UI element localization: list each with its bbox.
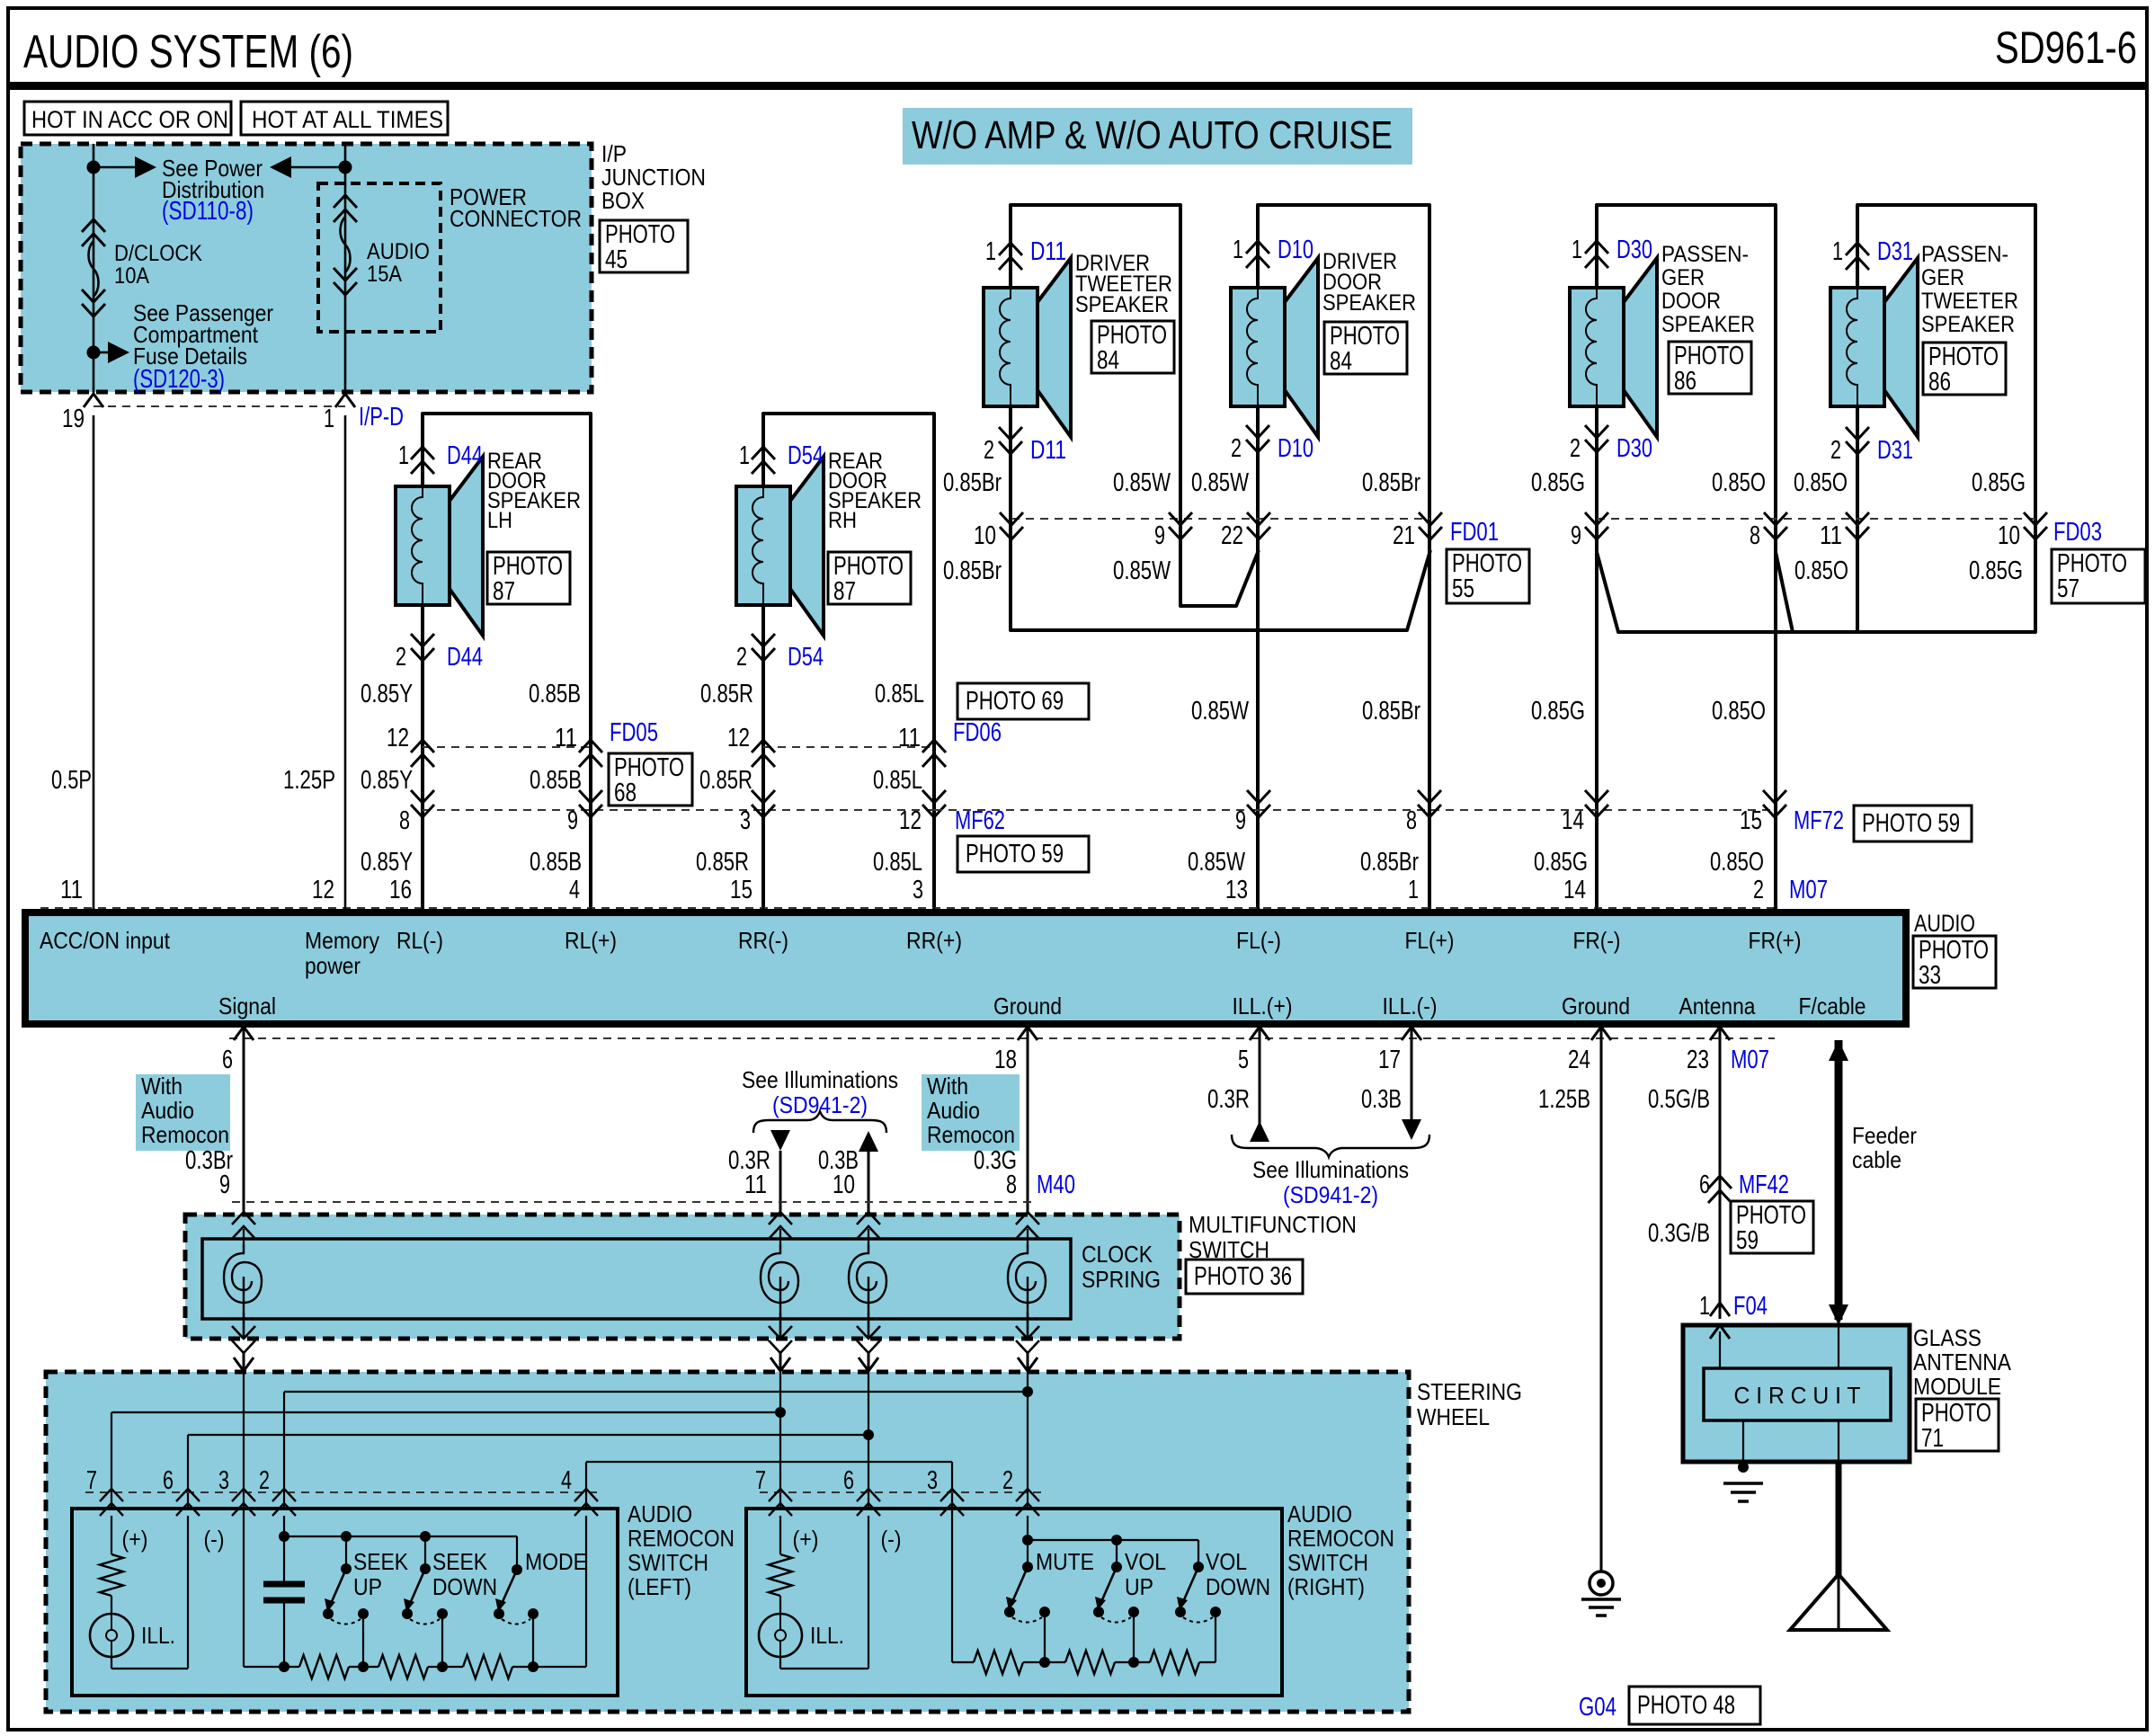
banner W/O AMP & W/O AUTO CRUISE [903, 108, 1412, 165]
connector right switch pin 7 [769, 1489, 792, 1516]
connector chevron below multifunction box x=1143 [1016, 1326, 1039, 1353]
svg-text:D44: D44 [447, 441, 483, 470]
svg-text:1: 1 [985, 237, 996, 266]
svg-text:0.5P: 0.5P [51, 766, 92, 795]
connector MF72 pin 9 [1247, 790, 1270, 817]
box With Audio Remocon (right) [922, 1074, 1020, 1151]
connector FD03 pin 8 [1764, 512, 1787, 539]
svg-text:1: 1 [739, 441, 750, 470]
connector M07 dashed line (bottom pins) [229, 1037, 1775, 1039]
connector D44 pin 2 [411, 634, 434, 661]
svg-text:0.85W: 0.85W [1188, 848, 1245, 877]
svg-text:1: 1 [1408, 876, 1419, 904]
connector right switch pin 3 [940, 1489, 964, 1516]
connector D10 pin 2 [1246, 425, 1269, 452]
connector left switch pin 2 [272, 1489, 296, 1516]
svg-text:10: 10 [974, 521, 996, 550]
svg-text:7: 7 [86, 1466, 97, 1495]
svg-text:2: 2 [1570, 434, 1581, 463]
svg-text:2: 2 [1830, 436, 1841, 465]
wire through clock spring x=271 [243, 1313, 245, 1339]
speaker PASSENGER TWEETER SPEAKER [1884, 258, 1918, 437]
svg-text:UP: UP [1125, 1573, 1153, 1600]
wire 0.3R into steering wheel to pin 7 right [779, 1372, 781, 1510]
svg-text:ILL.: ILL. [141, 1622, 175, 1649]
svg-text:55: 55 [1452, 574, 1474, 603]
node bus junction vol up [1128, 1657, 1139, 1668]
connector M40 chevron at x=868 [769, 1212, 792, 1239]
svg-text:0.85O: 0.85O [1794, 468, 1848, 497]
node capacitor junction [279, 1531, 289, 1542]
wire routing line A pin2L to ground [284, 1391, 1028, 1393]
audio remocon switch right box [746, 1509, 1282, 1696]
svg-text:D31: D31 [1877, 436, 1913, 465]
svg-text:CONNECTOR: CONNECTOR [450, 205, 582, 232]
node junction on AUDIO fuse wire [339, 161, 352, 174]
svg-text:D30: D30 [1616, 236, 1652, 264]
svg-text:7: 7 [755, 1466, 766, 1495]
svg-text:DOWN: DOWN [432, 1573, 497, 1600]
connector MF42 pin 6 [1708, 1176, 1732, 1203]
svg-text:D11: D11 [1030, 436, 1066, 465]
svg-text:Ground: Ground [1562, 993, 1630, 1019]
svg-text:D11: D11 [1030, 237, 1066, 266]
connector D10 pin 1 [1246, 241, 1269, 268]
svg-text:D54: D54 [788, 643, 824, 672]
node bus junction mute [1039, 1657, 1050, 1668]
svg-text:ANTENNA: ANTENNA [1913, 1349, 2012, 1375]
svg-text:(+): (+) [122, 1526, 148, 1553]
photo ref PHOTO 71 [1916, 1399, 1999, 1451]
node junction on D/CLOCK wire [87, 161, 101, 174]
svg-text:(LEFT): (LEFT) [628, 1573, 691, 1600]
svg-text:12: 12 [727, 724, 750, 752]
clock spring coil at x=868 [779, 1229, 781, 1250]
switch VOL DOWN [1193, 1562, 1204, 1572]
svg-text:BOX: BOX [601, 187, 645, 214]
svg-text:RR(+): RR(+) [906, 927, 962, 954]
connector FD06 pin 11 [922, 740, 946, 767]
svg-text:8: 8 [1750, 521, 1760, 550]
svg-text:9: 9 [1571, 521, 1581, 550]
svg-text:0.3R: 0.3R [1207, 1085, 1250, 1114]
connector FD01 pin 22 [1247, 512, 1270, 539]
svg-text:1: 1 [1572, 236, 1582, 264]
svg-text:17: 17 [1378, 1046, 1401, 1074]
svg-text:D10: D10 [1278, 434, 1313, 463]
photo ref PHOTO 59 (MF62) [957, 836, 1089, 872]
svg-text:MODULE: MODULE [1913, 1373, 2001, 1400]
connector FD06 dashed line [763, 746, 934, 748]
wire signal into steering wheel to pin 3 left [243, 1372, 245, 1510]
connector FD01 pin 9 [1169, 512, 1192, 539]
connector MF72 pin 15 [1763, 790, 1786, 817]
svg-text:6: 6 [1699, 1171, 1710, 1199]
svg-text:8: 8 [399, 806, 410, 835]
svg-text:15A: 15A [367, 262, 402, 287]
svg-text:1: 1 [1832, 237, 1843, 266]
connector M07 pin 11 caret [84, 909, 103, 922]
svg-text:4: 4 [561, 1466, 572, 1495]
svg-text:11: 11 [744, 1171, 767, 1199]
svg-text:RR(-): RR(-) [738, 927, 788, 954]
wire ACC/ON input (0.5P) [93, 415, 95, 909]
svg-text:0.85R: 0.85R [700, 680, 753, 708]
svg-text:(SD941-2): (SD941-2) [1283, 1181, 1378, 1208]
svg-text:9: 9 [1154, 521, 1165, 550]
connector M40 chevron at x=271 [232, 1212, 255, 1239]
switch SEEK DOWN [420, 1531, 431, 1542]
svg-text:VOL: VOL [1206, 1548, 1247, 1575]
wire passenger door speaker loop (FR) [1597, 205, 1776, 915]
wire switch feed line right [1028, 1539, 1198, 1541]
svg-text:I/P-D: I/P-D [359, 403, 404, 432]
svg-text:24: 24 [1568, 1046, 1590, 1074]
svg-text:FD06: FD06 [953, 718, 1002, 747]
svg-text:FD03: FD03 [2053, 518, 2102, 547]
fuse AUDIO 15A [334, 195, 357, 222]
svg-text:Signal: Signal [218, 993, 276, 1019]
svg-text:MF42: MF42 [1739, 1171, 1789, 1199]
svg-text:0.85Y: 0.85Y [361, 680, 413, 708]
svg-text:REMOCON: REMOCON [1287, 1525, 1394, 1552]
svg-text:9: 9 [567, 806, 578, 835]
wire Signal (0.3Br) [243, 1024, 245, 1215]
connector FD05 pin 11 [579, 740, 602, 767]
svg-text:15: 15 [1740, 806, 1762, 835]
wire through clock spring x=868 [779, 1313, 782, 1339]
connector M40 chevron at x=1143 [1016, 1212, 1039, 1239]
antenna feed thick [1836, 1462, 1842, 1576]
wire circuit internal ground [1742, 1420, 1744, 1467]
switch MUTE [1027, 1540, 1029, 1567]
svg-text:57: 57 [2057, 574, 2079, 603]
wire 0.3B into steering wheel to pin 6 right [868, 1372, 869, 1510]
svg-text:0.5G/B: 0.5G/B [1648, 1085, 1710, 1114]
svg-text:(SD120-3): (SD120-3) [133, 365, 225, 394]
wire ILL.(-) 0.3B to illuminations [1411, 1024, 1413, 1119]
AUDIO unit box [25, 913, 1906, 1024]
svg-text:PHOTO 36: PHOTO 36 [1194, 1262, 1292, 1291]
svg-text:SEEK: SEEK [353, 1548, 409, 1575]
svg-text:MULTIFUNCTION: MULTIFUNCTION [1189, 1211, 1357, 1238]
connector D44 pin 1 [411, 447, 434, 474]
svg-text:AUDIO: AUDIO [628, 1500, 692, 1527]
wire routing line C pin6L to 0.3B [188, 1434, 868, 1436]
photo ref PHOTO 36 [1186, 1260, 1303, 1294]
connector MF72 pin 8 [1418, 790, 1441, 817]
connector M40 chevron at x=966 [857, 1212, 880, 1239]
connector right switch pin 6 [857, 1489, 880, 1516]
switch VOL UP [1111, 1535, 1122, 1545]
wire 0.3B illumination return with up arrow [859, 1131, 878, 1152]
svg-text:0.85W: 0.85W [1113, 468, 1171, 497]
node junction lower on D/CLOCK wire [87, 346, 101, 360]
box HOT IN ACC OR ON [24, 102, 231, 135]
connector D30 pin 1 [1585, 241, 1608, 268]
svg-text:10: 10 [1998, 521, 2020, 550]
svg-text:PHOTO 69: PHOTO 69 [966, 687, 1064, 716]
wire Memory power (1.25P) [344, 415, 347, 909]
connector D30 pin 2 [1585, 425, 1608, 452]
wire driver door speaker loop (FL) [1258, 205, 1429, 915]
connector D31 pin 2 [1846, 427, 1869, 454]
svg-text:2: 2 [1231, 434, 1242, 463]
svg-text:D31: D31 [1877, 237, 1913, 266]
connector D54 pin 1 [752, 447, 775, 474]
svg-text:45: 45 [605, 245, 628, 274]
photo ref PHOTO 86 (door) [1669, 342, 1751, 394]
svg-text:With: With [141, 1073, 183, 1099]
svg-text:LH: LH [487, 508, 512, 533]
svg-text:21: 21 [1393, 521, 1415, 550]
photo ref PHOTO 87 (LH) [487, 552, 570, 604]
svg-text:18: 18 [994, 1046, 1017, 1074]
connector dashed line right switch pins [760, 1491, 1043, 1493]
svg-text:87: 87 [493, 577, 515, 606]
brace left illuminations [753, 1111, 886, 1133]
svg-text:M07: M07 [1731, 1046, 1769, 1074]
connector M07 pin 13 caret [1249, 909, 1269, 922]
svg-text:0.85G: 0.85G [1972, 468, 2026, 497]
svg-text:0.85Y: 0.85Y [361, 766, 413, 795]
svg-text:RL(+): RL(+) [565, 927, 617, 954]
svg-text:D54: D54 [788, 441, 824, 470]
svg-text:FL(-): FL(-) [1236, 927, 1281, 954]
connector M07 pin 15 caret [753, 909, 773, 922]
photo ref PHOTO 69 [957, 683, 1089, 719]
clock spring inner box [202, 1239, 1071, 1319]
svg-text:Memory: Memory [305, 927, 379, 954]
svg-text:2: 2 [259, 1466, 270, 1495]
connector left switch pin 3 [232, 1489, 255, 1516]
svg-text:PASSEN-: PASSEN- [1921, 242, 2008, 267]
svg-text:GLASS: GLASS [1913, 1324, 1981, 1351]
svg-text:RH: RH [828, 508, 857, 533]
wire 0.3G into steering wheel to pin 2 right [1027, 1372, 1029, 1510]
resistor lamp right [779, 1516, 781, 1554]
svg-text:WHEEL: WHEEL [1417, 1403, 1490, 1430]
connector MF62 pin 3 [752, 790, 775, 817]
svg-text:0.85G: 0.85G [1534, 848, 1588, 877]
svg-text:Audio: Audio [927, 1097, 980, 1124]
connector left switch pin 6 [176, 1489, 200, 1516]
svg-text:AUDIO SYSTEM (6): AUDIO SYSTEM (6) [23, 26, 353, 78]
svg-text:86: 86 [1674, 367, 1696, 396]
svg-text:1.25B: 1.25B [1538, 1085, 1590, 1114]
svg-text:0.85L: 0.85L [873, 848, 922, 877]
ground G04 symbol [1590, 1571, 1613, 1595]
svg-text:12: 12 [899, 806, 922, 835]
svg-text:22: 22 [1221, 521, 1243, 550]
svg-text:SWITCH: SWITCH [1287, 1549, 1368, 1576]
svg-text:14: 14 [1562, 806, 1584, 835]
svg-text:PHOTO 59: PHOTO 59 [966, 840, 1064, 868]
svg-text:MF72: MF72 [1794, 806, 1844, 835]
photo ref PHOTO 68 [609, 753, 692, 806]
svg-text:3: 3 [927, 1466, 938, 1495]
svg-text:9: 9 [1235, 806, 1246, 835]
wire passenger tweeter speaker loop [1857, 205, 2035, 632]
svg-text:0.3G/B: 0.3G/B [1648, 1219, 1710, 1248]
svg-text:HOT AT ALL TIMES: HOT AT ALL TIMES [252, 106, 443, 133]
svg-text:FD01: FD01 [1450, 518, 1499, 547]
svg-text:ILL.(-): ILL.(-) [1383, 993, 1438, 1019]
connector MF72 dashed line [934, 809, 1259, 811]
connector M07 bottom pin 18 caret [1018, 1027, 1037, 1040]
svg-text:PHOTO 48: PHOTO 48 [1637, 1691, 1735, 1720]
wire through clock spring x=966 [868, 1313, 870, 1339]
svg-text:19: 19 [62, 405, 85, 433]
svg-text:(SD941-2): (SD941-2) [772, 1091, 868, 1118]
connector FD03 pin 11 [1846, 512, 1869, 539]
connector M07 pin 1 caret [1420, 909, 1439, 922]
wire switch feed line left [284, 1536, 517, 1537]
svg-text:cable: cable [1852, 1146, 1901, 1173]
svg-text:0.3B: 0.3B [1361, 1085, 1402, 1114]
connector FD01 dashed line [1011, 518, 1430, 520]
svg-text:RL(-): RL(-) [396, 927, 443, 954]
svg-text:CLOCK: CLOCK [1082, 1241, 1153, 1268]
svg-text:SEEK: SEEK [432, 1548, 488, 1575]
connector M07 dashed line (top pins) [40, 907, 1775, 909]
connector M07 bottom pin 17 caret [1402, 1027, 1421, 1040]
wire D/CLOCK feed [93, 144, 95, 396]
svg-text:6: 6 [163, 1466, 174, 1495]
photo ref PHOTO 86 (tweeter) [1923, 343, 2006, 395]
photo ref PHOTO 57 [2052, 549, 2145, 603]
svg-text:3: 3 [740, 806, 751, 835]
connector left switch pin 4 [574, 1489, 598, 1516]
svg-text:ILL.(+): ILL.(+) [1233, 993, 1293, 1019]
svg-text:0.85Y: 0.85Y [361, 848, 413, 877]
svg-text:59: 59 [1736, 1226, 1759, 1255]
svg-text:5: 5 [1238, 1046, 1249, 1074]
svg-text:0.85W: 0.85W [1191, 697, 1249, 726]
svg-text:0.85O: 0.85O [1794, 556, 1848, 585]
audio remocon switch left box [72, 1509, 618, 1696]
ground symbol inside module [1723, 1483, 1763, 1501]
svg-text:12: 12 [312, 876, 334, 904]
svg-text:D44: D44 [447, 643, 483, 672]
connector M07 bottom pin 23 caret [1710, 1027, 1730, 1040]
svg-text:0.85R: 0.85R [696, 848, 749, 877]
svg-text:8: 8 [1006, 1171, 1017, 1199]
svg-text:With: With [927, 1073, 968, 1099]
connector right switch pin 2 [1016, 1489, 1039, 1516]
connector FD03 dashed line [1597, 518, 2035, 520]
svg-text:PASSEN-: PASSEN- [1661, 242, 1749, 267]
connector M07 pin 3 caret [924, 909, 944, 922]
svg-text:UP: UP [353, 1573, 382, 1600]
node module ground junction [1738, 1462, 1749, 1473]
photo ref PHOTO 55 [1447, 549, 1529, 603]
svg-text:TWEETER: TWEETER [1921, 289, 2018, 314]
svg-text:VOL: VOL [1125, 1548, 1166, 1575]
svg-text:AUDIO: AUDIO [1914, 910, 1975, 937]
node junction line A on ground wire [1022, 1386, 1033, 1397]
svg-text:F04: F04 [1733, 1292, 1768, 1321]
connector I/P-D pin 19 exit caret [84, 394, 103, 407]
svg-text:REMOCON: REMOCON [628, 1525, 735, 1552]
node bus junction seek down [437, 1661, 448, 1672]
svg-text:Ground: Ground [993, 993, 1062, 1019]
svg-text:M07: M07 [1789, 876, 1828, 904]
svg-text:(+): (+) [793, 1526, 819, 1553]
svg-text:SD961-6: SD961-6 [1995, 22, 2137, 73]
svg-text:1: 1 [1699, 1292, 1710, 1321]
wire AUDIO fuse feed [344, 144, 347, 396]
svg-text:SPEAKER: SPEAKER [1921, 312, 2015, 337]
connector M07 pin 12 caret [335, 909, 355, 922]
svg-text:6: 6 [222, 1046, 233, 1074]
connector FD05 pin 12 [411, 740, 434, 767]
connector MF62 pin 9 [579, 790, 602, 817]
svg-text:11: 11 [60, 876, 83, 904]
box HOT AT ALL TIMES [241, 102, 448, 135]
connector D31 pin 1 [1846, 243, 1869, 270]
connector left switch pin 7 [100, 1489, 123, 1516]
svg-text:power: power [305, 952, 361, 979]
svg-text:0.85O: 0.85O [1712, 468, 1766, 497]
svg-text:(-): (-) [204, 1526, 225, 1553]
connector chevron below multifunction box x=271 [232, 1326, 255, 1353]
connector dashed line left switch pins [85, 1491, 602, 1493]
connector M07 bottom pin 5 caret [1250, 1027, 1269, 1040]
svg-text:HOT IN ACC OR ON: HOT IN ACC OR ON [31, 106, 228, 133]
wire Antenna pin23 (0.5G/B) [1719, 1024, 1722, 1319]
svg-text:0.85B: 0.85B [530, 766, 582, 795]
wire rear door speaker LH loop (RL) [423, 414, 591, 915]
photo ref PHOTO 87 (RH) [828, 552, 911, 604]
clock spring coil at x=966 [868, 1229, 869, 1250]
svg-text:FD05: FD05 [610, 718, 658, 747]
svg-text:0.85Br: 0.85Br [943, 468, 1002, 497]
wire resistor bus right [951, 1510, 953, 1662]
svg-text:87: 87 [833, 577, 856, 606]
feeder cable thick wire [1835, 1040, 1843, 1320]
photo ref PHOTO 48 [1629, 1687, 1760, 1724]
connector MF72 pin 14 [1585, 790, 1608, 817]
node bus junction mode [528, 1661, 539, 1672]
svg-text:Remocon: Remocon [141, 1121, 229, 1148]
wire feeder into circuit [1838, 1325, 1839, 1368]
svg-text:MUTE: MUTE [1036, 1548, 1094, 1575]
svg-text:D/CLOCK: D/CLOCK [114, 241, 202, 266]
svg-text:68: 68 [614, 779, 637, 807]
svg-text:0.85Br: 0.85Br [943, 556, 1002, 585]
svg-text:GER: GER [1661, 265, 1705, 290]
wire driver tweeter speaker loop [1011, 205, 1259, 606]
switch MODE [512, 1564, 522, 1575]
wire lamp return right [779, 1657, 781, 1669]
svg-text:SPEAKER: SPEAKER [1322, 290, 1416, 316]
connector FD01 pin 21 [1419, 512, 1442, 539]
power connector dashed box [318, 183, 441, 332]
svg-text:9: 9 [219, 1171, 230, 1199]
svg-text:14: 14 [1563, 876, 1586, 904]
speaker DRIVER TWEETER SPEAKER [1037, 258, 1071, 437]
wire routing line D pin4L to pin3R [586, 1461, 952, 1463]
title separator bar [8, 82, 2147, 90]
connector chevron below multifunction box x=868 [769, 1326, 792, 1353]
svg-text:Audio: Audio [141, 1097, 194, 1124]
svg-text:1: 1 [398, 441, 409, 470]
wire Ground pin24 (1.25B) [1600, 1024, 1603, 1571]
lamp ILL left [90, 1614, 133, 1657]
svg-text:16: 16 [389, 876, 412, 904]
capacitor C1 [283, 1536, 285, 1584]
